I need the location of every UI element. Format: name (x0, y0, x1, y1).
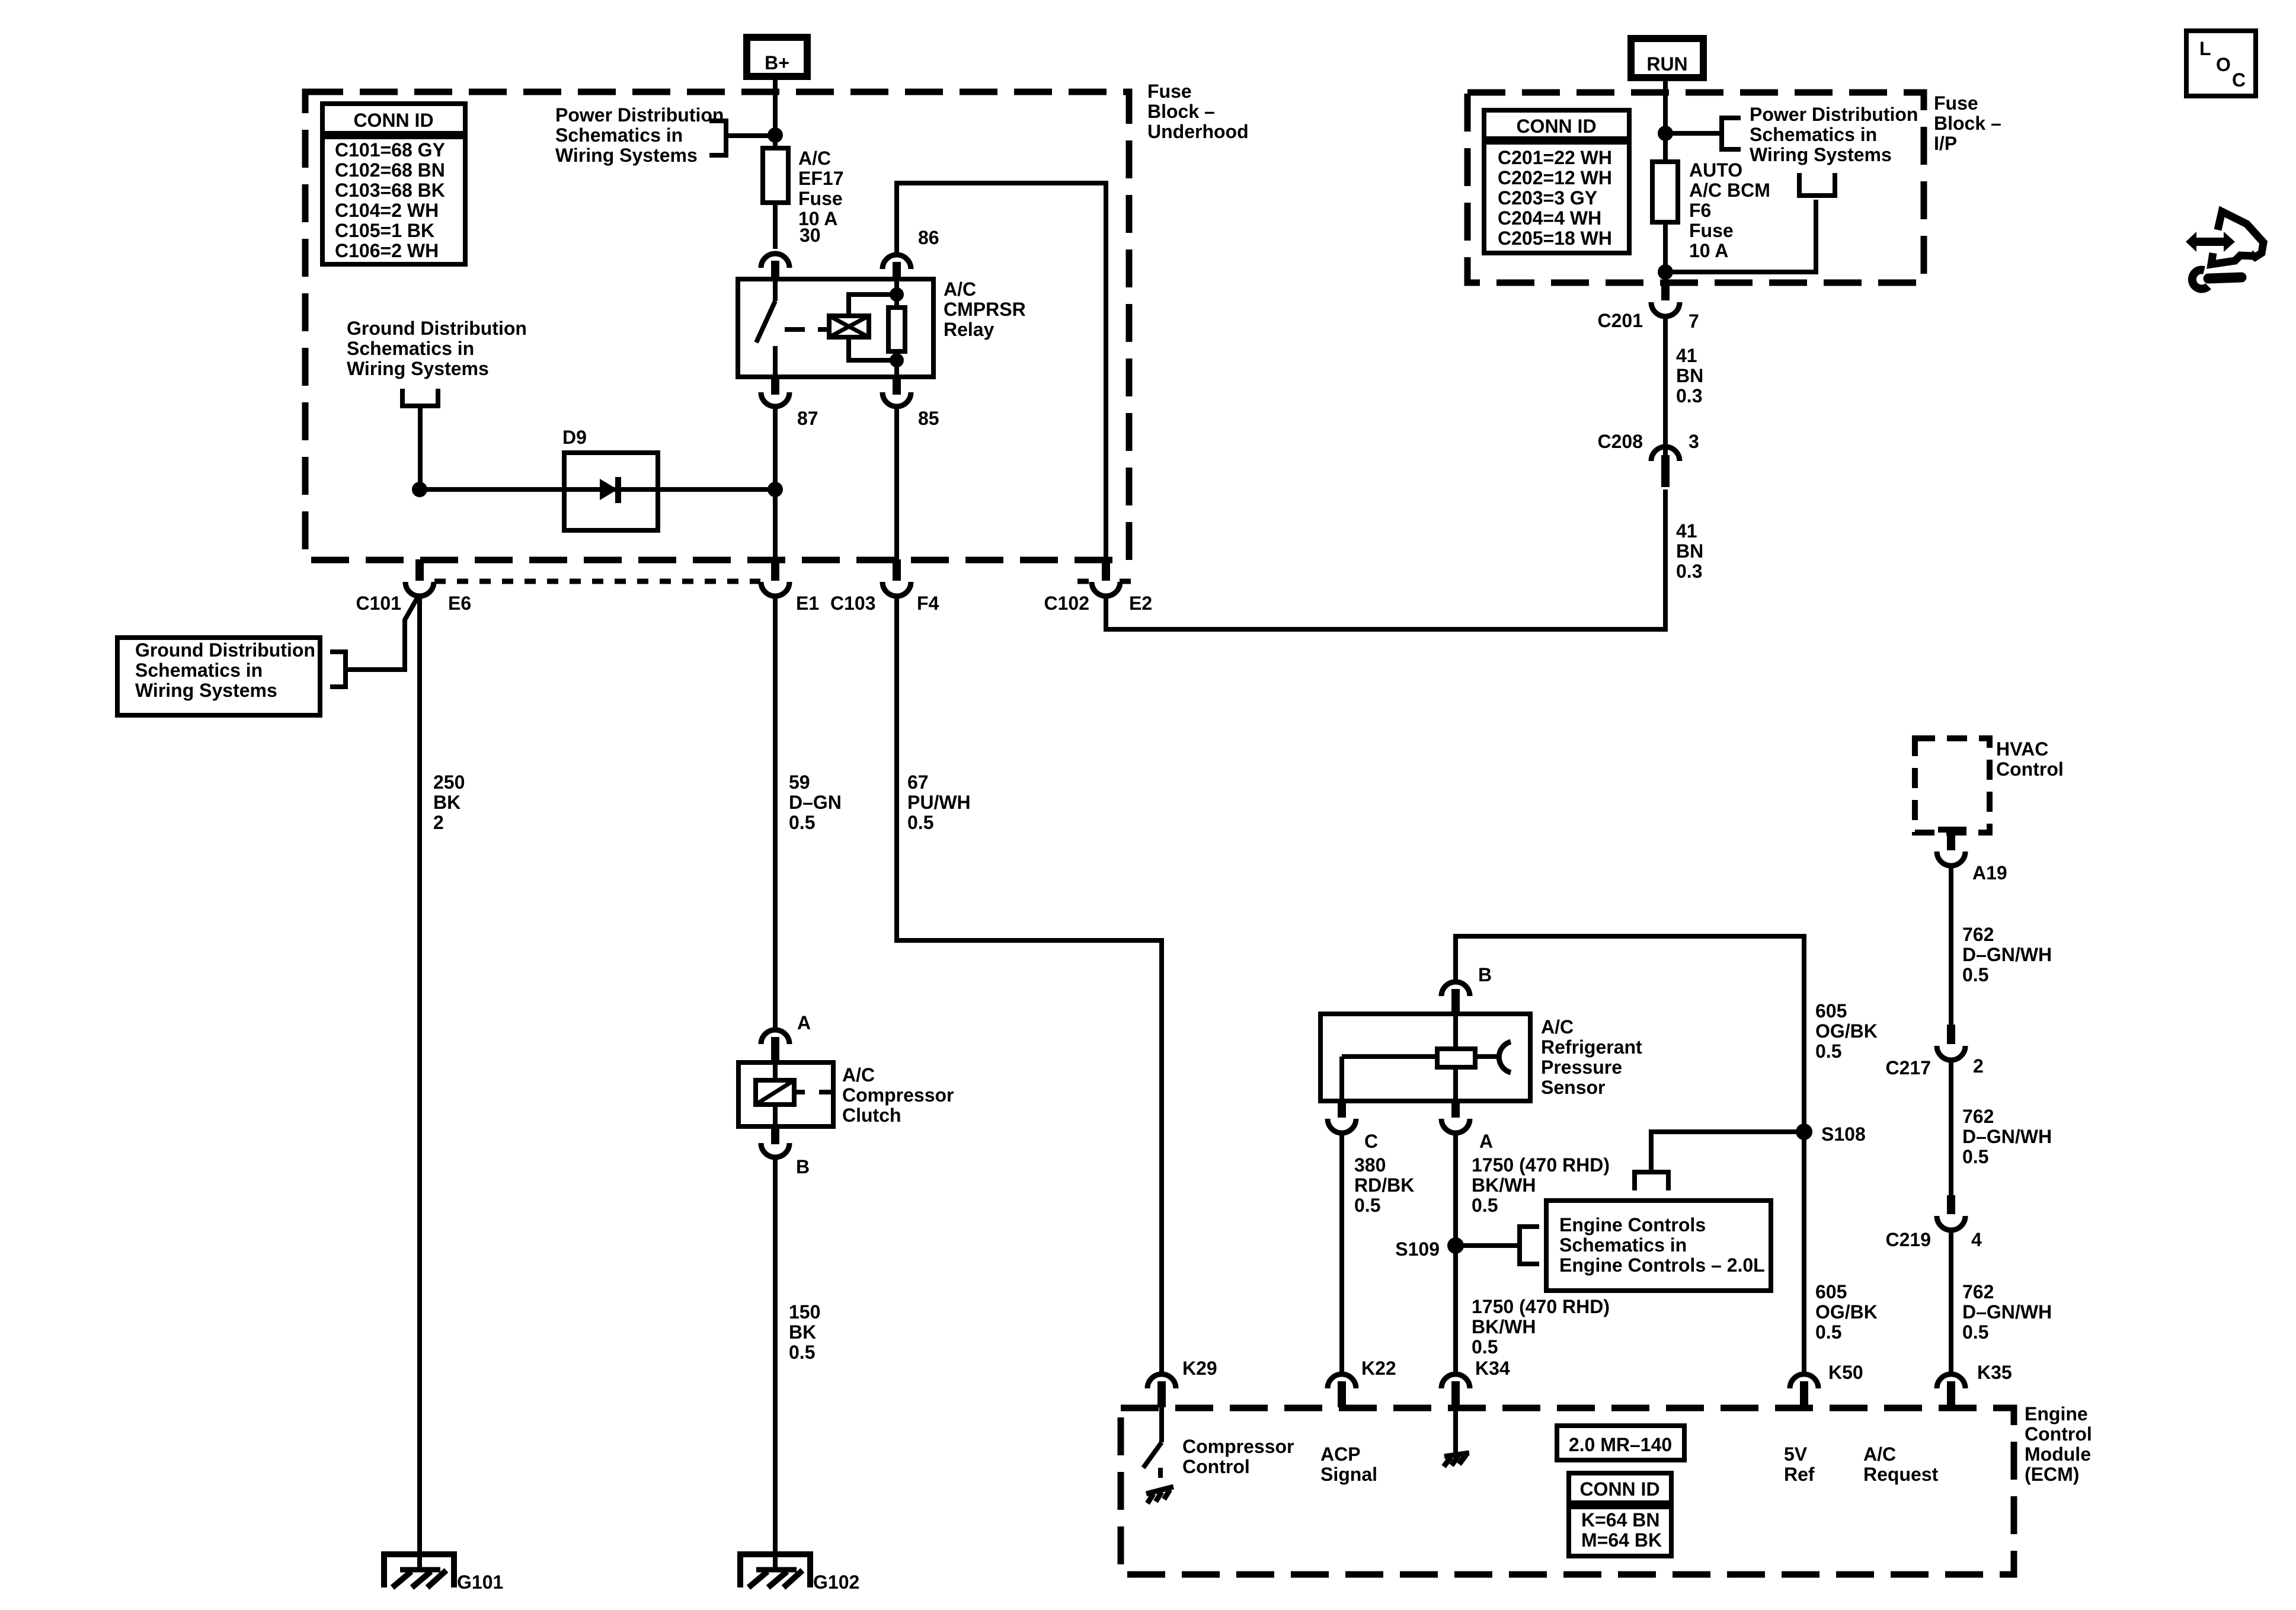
svg-text:0.5: 0.5 (789, 812, 815, 833)
reference bracket (power distribution I/P) (1665, 118, 1741, 149)
svg-text:CONN ID: CONN ID (353, 110, 433, 131)
svg-text:C101=68 GY: C101=68 GY (335, 139, 445, 161)
svg-text:87: 87 (797, 408, 818, 429)
service icon: wrench (2192, 270, 2241, 289)
svg-text:A19: A19 (1972, 862, 2007, 884)
relay U: A/C CMPRSR relay box (738, 279, 933, 377)
svg-text:0.5: 0.5 (1962, 1146, 1988, 1167)
svg-text:Engine Controls – 2.0L: Engine Controls – 2.0L (1559, 1254, 1765, 1276)
svg-text:86: 86 (918, 227, 939, 248)
junction dot coil top (890, 287, 904, 302)
svg-text:F6: F6 (1689, 200, 1711, 221)
svg-text:E1: E1 (796, 593, 819, 614)
fuse F6 label (1689, 159, 1770, 261)
splice S109 (1447, 1237, 1464, 1254)
svg-text:C102=68 BN: C102=68 BN (335, 159, 445, 181)
label: power distribution schematics (I/P) (1750, 104, 1918, 165)
svg-text:F4: F4 (917, 593, 939, 614)
svg-text:Ground Distribution: Ground Distribution (347, 318, 527, 339)
HVAC control dashed box (1915, 738, 1990, 833)
svg-text:Control: Control (1182, 1456, 1250, 1477)
svg-text:CONN ID: CONN ID (1516, 116, 1596, 137)
svg-text:K29: K29 (1182, 1358, 1217, 1379)
dotted stubs at C102 (1077, 579, 1134, 584)
svg-text:A: A (1479, 1131, 1493, 1152)
svg-text:B: B (1478, 964, 1492, 985)
junction RUN tap (1658, 126, 1673, 141)
connector K34 (1441, 1374, 1470, 1407)
fuse EF17 label (798, 148, 843, 229)
compressor control switch (K29 inside ECM) (1143, 1407, 1162, 1478)
svg-text:OG/BK: OG/BK (1815, 1301, 1878, 1323)
wire D9 to E1 wire (658, 487, 775, 492)
svg-text:380: 380 (1354, 1154, 1386, 1176)
connector clutch pin B (761, 1126, 789, 1157)
svg-text:L: L (2199, 38, 2211, 59)
svg-text:Compressor: Compressor (1182, 1436, 1294, 1457)
svg-text:7: 7 (1689, 311, 1699, 332)
svg-text:0.5: 0.5 (1472, 1195, 1498, 1216)
svg-text:Schematics in: Schematics in (347, 338, 474, 359)
svg-text:30: 30 (800, 225, 821, 246)
svg-text:2.0 MR–140: 2.0 MR–140 (1569, 1434, 1672, 1455)
svg-text:150: 150 (789, 1301, 820, 1323)
connector clutch pin A (761, 1030, 789, 1064)
svg-text:Ref: Ref (1784, 1464, 1815, 1485)
connector pin 86 (882, 255, 911, 281)
wire label 605 OG/BK 0.5 (upper) (1815, 1000, 1878, 1062)
svg-text:2: 2 (433, 812, 444, 833)
wire E1 to clutch pin A (59 D-GN 0.5) (773, 595, 778, 1031)
A/C compressor clutch (738, 1062, 833, 1126)
connector sensor pin A (1441, 1101, 1470, 1133)
svg-text:Block –: Block – (1147, 101, 1215, 122)
svg-text:Schematics in: Schematics in (1750, 124, 1877, 145)
svg-text:K=64 BN: K=64 BN (1581, 1509, 1660, 1531)
connector C217 (1937, 1025, 1965, 1060)
svg-text:BN: BN (1676, 365, 1703, 386)
service icon: connector outline (2211, 212, 2263, 264)
svg-text:BK/WH: BK/WH (1472, 1316, 1536, 1337)
relay switch contact (756, 279, 775, 377)
junction dot E6/D9 (412, 482, 427, 497)
svg-text:C219: C219 (1886, 1229, 1932, 1250)
wire relay pin 86 to E2 (ignition feed) (897, 183, 1106, 561)
wire C201 to C208 (41 BN 0.3) (1663, 315, 1668, 455)
clutch label (842, 1064, 954, 1126)
CONN ID table (underhood) (322, 104, 465, 264)
Fuse Block - I/P dashed box (1467, 92, 1924, 283)
svg-text:0.5: 0.5 (1815, 1041, 1841, 1062)
fuse EF17 (763, 148, 788, 203)
svg-text:C: C (2232, 69, 2246, 91)
Fuse Block - Underhood label (1147, 81, 1249, 142)
svg-text:C103: C103 (830, 593, 876, 614)
wire label 41 BN 0.3 (upper) (1676, 345, 1703, 406)
svg-text:C204=4 WH: C204=4 WH (1498, 207, 1601, 229)
svg-text:C105=1 BK: C105=1 BK (335, 220, 434, 241)
svg-text:85: 85 (918, 408, 939, 429)
svg-text:762: 762 (1962, 1106, 1994, 1127)
connector K50 (1790, 1374, 1818, 1407)
svg-text:E2: E2 (1129, 593, 1152, 614)
relay dashed actuation link (785, 327, 829, 332)
svg-text:C: C (1364, 1131, 1378, 1152)
connector K35 (1937, 1374, 1965, 1407)
svg-text:Ground Distribution: Ground Distribution (135, 639, 315, 661)
connector pin 30 (761, 254, 789, 281)
svg-text:RD/BK: RD/BK (1354, 1174, 1414, 1196)
fuse F6 (1652, 162, 1678, 222)
ECM dashed box (1121, 1408, 2014, 1574)
svg-text:Wiring Systems: Wiring Systems (135, 680, 277, 701)
svg-text:0.5: 0.5 (789, 1342, 815, 1363)
wire F4 to K29 (67 PU/WH 0.5) (897, 595, 1162, 1375)
svg-text:Fuse: Fuse (798, 188, 843, 209)
wire K34 to ground (1453, 1407, 1458, 1455)
svg-text:Pressure: Pressure (1541, 1057, 1622, 1078)
A/C refrigerant pressure sensor (1320, 1014, 1530, 1101)
svg-text:4: 4 (1971, 1229, 1982, 1250)
svg-text:C101: C101 (356, 593, 402, 614)
CONN ID table (I/P) (1484, 110, 1629, 253)
label: ground distribution schematics (in fuse block) (347, 318, 527, 379)
svg-text:C103=68 BK: C103=68 BK (335, 180, 445, 201)
svg-text:41: 41 (1676, 345, 1697, 366)
wire bracket to C101 (346, 595, 419, 670)
compressor control label (1182, 1436, 1294, 1477)
svg-text:Relay: Relay (944, 319, 994, 340)
splice S108 (1796, 1124, 1812, 1140)
5V Ref label (1784, 1443, 1815, 1485)
svg-text:Compressor: Compressor (842, 1084, 954, 1106)
wire C to K22 (380 RD/BK 0.5) (1339, 1132, 1344, 1375)
wire C217 to C219 (1949, 1060, 1953, 1196)
svg-text:C106=2 WH: C106=2 WH (335, 240, 439, 261)
reference bracket (ground distribution, fuse block) (402, 389, 438, 406)
svg-text:EF17: EF17 (798, 168, 843, 189)
svg-text:Clutch: Clutch (842, 1105, 901, 1126)
svg-text:Fuse: Fuse (1689, 220, 1734, 241)
svg-text:2: 2 (1973, 1055, 1984, 1077)
connector K29 (1147, 1374, 1176, 1407)
svg-text:HVAC: HVAC (1996, 738, 2048, 760)
svg-text:Block –: Block – (1934, 113, 2001, 134)
svg-text:M=64 BK: M=64 BK (1581, 1529, 1662, 1551)
svg-text:S108: S108 (1821, 1124, 1866, 1145)
wire C219 to K35 (1949, 1230, 1953, 1375)
svg-text:Signal: Signal (1320, 1464, 1377, 1485)
svg-text:C201=22 WH: C201=22 WH (1498, 147, 1612, 168)
wire D9 branch left segment (420, 487, 564, 492)
svg-text:D–GN/WH: D–GN/WH (1962, 944, 2052, 965)
svg-text:250: 250 (433, 772, 465, 793)
wire lower tap to bracket (1665, 200, 1816, 272)
wire label 41 BN 0.3 (lower) (1676, 520, 1703, 582)
svg-text:K50: K50 (1828, 1362, 1863, 1383)
svg-text:O: O (2216, 54, 2231, 75)
wire label 380 RD/BK 0.5 (1354, 1154, 1414, 1216)
svg-text:G102: G102 (813, 1571, 859, 1593)
wire label 762 D-GN/WH 0.5 (first) (1962, 924, 2052, 985)
reference bracket engine controls (from S109) (1520, 1227, 1539, 1264)
wire B+ to EF17 fuse (773, 76, 778, 148)
svg-text:Sensor: Sensor (1541, 1077, 1605, 1098)
svg-text:0.5: 0.5 (1962, 1321, 1988, 1343)
svg-text:Schematics in: Schematics in (1559, 1234, 1687, 1256)
svg-text:Control: Control (1996, 758, 2064, 780)
svg-text:Power Distribution: Power Distribution (1750, 104, 1918, 125)
relay label (944, 279, 1026, 340)
ground (compressor control) (1146, 1487, 1173, 1503)
svg-text:CONN ID: CONN ID (1579, 1478, 1659, 1500)
svg-text:A/C: A/C (944, 279, 976, 300)
svg-text:Wiring Systems: Wiring Systems (555, 145, 698, 166)
svg-text:10 A: 10 A (1689, 240, 1728, 261)
relay resistor (888, 281, 905, 377)
HVAC control label (1996, 738, 2064, 780)
wire clutch B to G102 (150 BK 0.5) (773, 1156, 778, 1570)
ECM label (2025, 1403, 2092, 1485)
wire RUN to fuse F6 (1663, 78, 1668, 162)
svg-text:Fuse: Fuse (1934, 92, 1978, 114)
wire label 1750 BK/WH 0.5 (upper) (1472, 1154, 1610, 1216)
svg-text:1750 (470 RHD): 1750 (470 RHD) (1472, 1154, 1610, 1176)
svg-text:A/C BCM: A/C BCM (1689, 180, 1770, 201)
ground (K34 sensor return) (1444, 1453, 1469, 1467)
wire label 762 D-GN/WH 0.5 (third) (1962, 1281, 2052, 1343)
svg-text:BK/WH: BK/WH (1472, 1174, 1536, 1196)
svg-text:D9: D9 (562, 427, 587, 448)
ground distribution label box (left) (117, 638, 320, 715)
svg-text:0.5: 0.5 (907, 812, 933, 833)
connector C103 pin E1 (761, 559, 789, 596)
connector pin 87 (761, 377, 789, 406)
wire label 59 D-GN 0.5 (789, 772, 842, 833)
svg-text:Wiring Systems: Wiring Systems (347, 358, 489, 379)
svg-text:B: B (796, 1156, 810, 1177)
svg-text:ACP: ACP (1320, 1443, 1361, 1465)
svg-text:Fuse: Fuse (1147, 81, 1192, 102)
RUN power symbol (1631, 39, 1703, 78)
svg-text:3: 3 (1689, 431, 1699, 452)
svg-text:AUTO: AUTO (1689, 159, 1742, 181)
LOC location key box (2186, 31, 2256, 96)
svg-text:I/P: I/P (1934, 133, 1957, 154)
relay coil wiring (849, 295, 897, 360)
svg-text:A/C: A/C (798, 148, 831, 169)
sensor label (1541, 1016, 1642, 1098)
svg-text:E6: E6 (448, 593, 471, 614)
svg-text:D–GN/WH: D–GN/WH (1962, 1301, 2052, 1323)
svg-text:0.5: 0.5 (1815, 1321, 1841, 1343)
svg-text:C102: C102 (1044, 593, 1090, 614)
svg-text:Schematics in: Schematics in (555, 124, 683, 146)
connector sensor pin C (1328, 1101, 1356, 1133)
wire S108 to engine controls bracket (1651, 1132, 1804, 1170)
junction dot D9/E1 (768, 482, 783, 497)
A/C request label (1863, 1443, 1939, 1485)
svg-text:Engine: Engine (2025, 1403, 2088, 1425)
svg-text:762: 762 (1962, 1281, 1994, 1302)
svg-text:CMPRSR: CMPRSR (944, 299, 1026, 320)
connector C208 (1651, 447, 1680, 487)
svg-text:Schematics in: Schematics in (135, 660, 263, 681)
relay coil box with X (829, 316, 869, 337)
Fuse Block - Underhood dashed box (305, 92, 1129, 560)
svg-text:1750 (470 RHD): 1750 (470 RHD) (1472, 1296, 1610, 1317)
connector C103 pin F4 (882, 559, 911, 596)
svg-text:41: 41 (1676, 520, 1697, 542)
B+ power symbol (747, 37, 807, 76)
svg-text:Module: Module (2025, 1443, 2091, 1465)
CONN ID table (ECM) (1569, 1473, 1671, 1556)
svg-text:C217: C217 (1886, 1057, 1932, 1078)
svg-text:C203=3 GY: C203=3 GY (1498, 187, 1597, 209)
svg-text:0.3: 0.3 (1676, 385, 1702, 406)
svg-text:C202=12 WH: C202=12 WH (1498, 167, 1612, 188)
connector pin 85 (882, 377, 911, 406)
svg-text:A/C: A/C (1863, 1443, 1896, 1465)
reference bracket (power distribution B+) (709, 121, 775, 155)
svg-text:D–GN/WH: D–GN/WH (1962, 1126, 2052, 1147)
ground G102 (740, 1554, 810, 1587)
service icon: double arrow (2186, 232, 2235, 252)
svg-text:C104=2 WH: C104=2 WH (335, 200, 439, 221)
reference bracket engine controls (from S108) (1635, 1172, 1668, 1190)
svg-text:605: 605 (1815, 1000, 1847, 1022)
Fuse Block - I/P label (1934, 92, 2001, 154)
wire 5V ref: sensor B to S108 to K50 (605 OG/BK) (1456, 936, 1804, 1375)
wire S109 to bracket (1456, 1243, 1518, 1248)
connector C219 (1937, 1195, 1965, 1230)
wire label 67 PU/WH 0.5 (907, 772, 971, 833)
svg-text:0.5: 0.5 (1354, 1195, 1380, 1216)
connector C101 pin E6 (405, 559, 434, 596)
svg-text:Request: Request (1863, 1464, 1939, 1485)
svg-text:D–GN: D–GN (789, 792, 842, 813)
svg-text:Wiring Systems: Wiring Systems (1750, 144, 1892, 165)
svg-text:0.3: 0.3 (1676, 561, 1702, 582)
svg-text:BK: BK (433, 792, 461, 813)
wire label 1750 BK/WH 0.5 (lower) (1472, 1296, 1610, 1358)
svg-text:BN: BN (1676, 540, 1703, 562)
svg-text:A: A (797, 1012, 811, 1033)
connector C201 (1651, 280, 1680, 316)
svg-text:5V: 5V (1784, 1443, 1808, 1465)
svg-text:C208: C208 (1598, 431, 1643, 452)
wire label 605 OG/BK 0.5 (lower) (1815, 1281, 1878, 1343)
svg-text:59: 59 (789, 772, 810, 793)
reference bracket (power distribution I/P lower) (1799, 173, 1835, 196)
svg-text:762: 762 (1962, 924, 1994, 945)
svg-text:BK: BK (789, 1321, 816, 1343)
wire EF17 to relay pin 30 (773, 203, 778, 249)
svg-text:OG/BK: OG/BK (1815, 1020, 1878, 1042)
svg-text:605: 605 (1815, 1281, 1847, 1302)
connector sensor pin B (1441, 982, 1470, 1014)
wire F6 to C201 (1663, 222, 1668, 283)
svg-text:B+: B+ (765, 52, 789, 73)
svg-text:C205=18 WH: C205=18 WH (1498, 228, 1612, 249)
svg-text:0.5: 0.5 (1962, 964, 1988, 985)
wire A to S109/K34 (1750 BK/WH 0.5) (1453, 1132, 1458, 1375)
svg-text:RUN: RUN (1646, 53, 1687, 75)
2.0 MR-140 box (1557, 1426, 1684, 1460)
ground G101 (384, 1554, 454, 1587)
diode D9 (564, 453, 658, 530)
connector C102 pin E2 (1092, 559, 1120, 596)
svg-text:PU/WH: PU/WH (907, 792, 971, 813)
wire E2 to C208 (ignition 41 BN 0.3) (1106, 489, 1665, 629)
svg-text:K22: K22 (1361, 1358, 1396, 1379)
wire label 762 D-GN/WH 0.5 (second) (1962, 1106, 2052, 1167)
wire A19 to C217 (762 D-GN/WH) (1949, 865, 1953, 1026)
svg-text:67: 67 (907, 772, 929, 793)
wire label 250 BK 2 (433, 772, 465, 833)
wire pin 85 to F4 (894, 405, 899, 561)
connector line C101/C103 (dotted) (434, 579, 760, 584)
svg-text:(ECM): (ECM) (2025, 1464, 2079, 1485)
svg-text:A/C: A/C (1541, 1016, 1574, 1038)
svg-text:G101: G101 (457, 1571, 503, 1593)
svg-text:C201: C201 (1598, 310, 1643, 331)
connector K22 (1328, 1374, 1356, 1407)
ACP signal label (1320, 1443, 1377, 1485)
wire label 150 BK 0.5 (789, 1301, 820, 1363)
svg-text:Refrigerant: Refrigerant (1541, 1036, 1642, 1058)
reference bracket (ground distribution left) (330, 652, 346, 687)
svg-text:Control: Control (2025, 1423, 2092, 1445)
svg-text:K34: K34 (1475, 1358, 1510, 1379)
label: power distribution schematics (B+ feed) (555, 104, 724, 166)
wire bracket to E6 junction (418, 406, 423, 489)
svg-text:Power Distribution: Power Distribution (555, 104, 724, 126)
connector A19 (1937, 830, 1966, 866)
svg-text:S109: S109 (1395, 1238, 1440, 1260)
engine controls schematics box (1546, 1201, 1771, 1291)
junction dot coil bottom (890, 353, 904, 367)
svg-text:A/C: A/C (842, 1064, 875, 1086)
svg-text:0.5: 0.5 (1472, 1336, 1498, 1358)
svg-text:Underhood: Underhood (1147, 121, 1249, 142)
junction B+ tap (768, 127, 783, 143)
wire E6 to G101 (250 BK 2) (417, 595, 422, 1570)
junction F6 lower tap (1658, 264, 1673, 280)
svg-text:K35: K35 (1977, 1362, 2012, 1383)
svg-text:Engine Controls: Engine Controls (1559, 1214, 1706, 1235)
wire pin 87 to E1 (773, 405, 778, 561)
